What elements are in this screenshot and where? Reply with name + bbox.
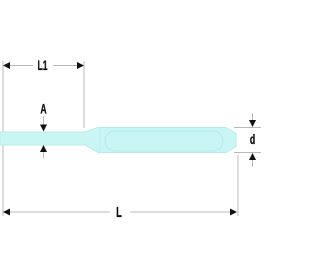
A stub above	[43, 116, 45, 125]
d stub below	[252, 160, 254, 167]
L dimension line	[9, 211, 110, 213]
d bottom arrow (up)	[249, 153, 256, 160]
extension line L right (x=238)	[237, 155, 239, 216]
extension line L1 right (x=84)	[83, 61, 85, 128]
svg-text:L: L	[116, 204, 122, 221]
tool body (pin punch)	[0, 128, 236, 153]
L1 dimension line	[9, 65, 33, 67]
L right arrow	[230, 209, 237, 216]
A bottom arrow (up)	[40, 145, 47, 152]
L1 left arrow	[3, 62, 10, 69]
L1 right arrow	[77, 62, 84, 69]
svg-text:L1: L1	[37, 58, 48, 74]
A stub below	[43, 152, 45, 158]
handle inner contour	[105, 131, 223, 151]
L left arrow	[3, 209, 10, 216]
svg-text:d: d	[250, 132, 255, 148]
A top arrow (down)	[40, 125, 47, 132]
svg-text:A: A	[40, 101, 47, 117]
extension line d bottom	[234, 152, 261, 154]
extension line left (x=3)	[2, 61, 4, 216]
extension line d top	[234, 127, 261, 129]
taper seam	[99, 128, 101, 153]
d stub above	[252, 113, 254, 120]
d top arrow (down)	[249, 120, 256, 127]
